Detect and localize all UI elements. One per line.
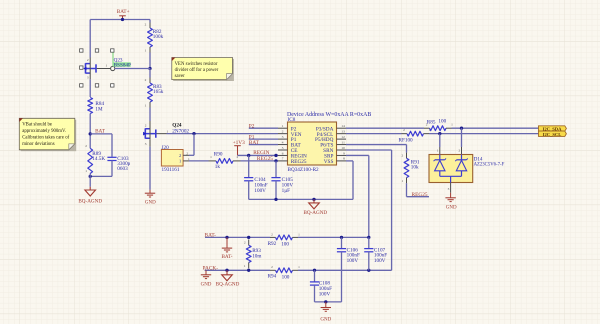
svg-text:2: 2 <box>403 128 405 132</box>
svg-text:2: 2 <box>458 148 460 152</box>
wire SCL to port <box>429 133 539 135</box>
resistor R92 <box>270 236 276 238</box>
wire SCL from IC8 <box>346 133 402 135</box>
svg-text:BQ-AGND: BQ-AGND <box>216 282 240 288</box>
ground GND bottom <box>325 302 327 307</box>
svg-text:BAT-: BAT- <box>221 254 232 260</box>
svg-text:1: 1 <box>437 148 439 152</box>
svg-text:2: 2 <box>145 22 147 26</box>
svg-text:RF100: RF100 <box>399 137 414 143</box>
junction bottom gnd <box>324 300 327 303</box>
junction REGIN C104 <box>247 154 250 157</box>
svg-text:14.5K: 14.5K <box>92 156 105 162</box>
wire left vertical to Q23 drain <box>89 20 91 58</box>
resistor R83 <box>149 69 151 78</box>
wire D14 to GND <box>450 183 452 193</box>
svg-text:2: 2 <box>271 265 273 269</box>
junction SCL to D14 <box>438 132 441 135</box>
wire SCL tap to D14 <box>439 134 441 147</box>
svg-text:0603: 0603 <box>117 166 128 172</box>
wire Q23 gate to junction <box>115 68 150 70</box>
svg-text:100V: 100V <box>319 291 331 297</box>
svg-text:2: 2 <box>186 151 188 155</box>
diode D14 AZ23C5V6-7-F box <box>429 155 473 183</box>
svg-text:GND: GND <box>320 317 331 322</box>
port I2C_SDA <box>539 126 567 131</box>
svg-text:1M: 1M <box>95 106 103 112</box>
port I2C_SCL <box>539 131 567 136</box>
resistor R94 <box>270 269 276 271</box>
junction C106 top <box>340 236 343 239</box>
junction agnd symbol <box>312 198 315 201</box>
junction divider bottom <box>89 175 92 178</box>
svg-text:100V: 100V <box>254 188 266 194</box>
IC U-IC8 BQ34Z100-R2 box <box>288 122 337 165</box>
svg-text:3: 3 <box>145 142 147 146</box>
wire BAT to C103 <box>90 133 112 135</box>
svg-text:R90: R90 <box>214 152 223 158</box>
svg-text:165k: 165k <box>153 89 164 95</box>
junction REGIN C105 column <box>274 154 277 157</box>
wire C106/C108 ground <box>315 301 342 303</box>
svg-text:divider off for a power: divider off for a power <box>175 68 219 73</box>
svg-text:REG25: REG25 <box>291 159 307 165</box>
resistor R89 <box>88 148 93 173</box>
capacitor C103 <box>107 156 116 158</box>
svg-text:1931161: 1931161 <box>162 167 180 173</box>
junction VEN to J20 <box>192 132 195 135</box>
resistor R82 <box>149 20 151 23</box>
svg-text:R85: R85 <box>427 120 436 126</box>
svg-text:2: 2 <box>85 144 87 148</box>
capacitor C107 <box>368 237 370 248</box>
wire VSS to agnd <box>346 160 353 162</box>
svg-text:BAT+: BAT+ <box>117 9 130 15</box>
wire SRP down <box>346 154 369 156</box>
IC8 pins <box>278 127 288 129</box>
svg-text:10m: 10m <box>252 253 261 259</box>
svg-text:2: 2 <box>179 153 181 158</box>
svg-text:1: 1 <box>210 155 212 159</box>
svg-text:BQ-AGND: BQ-AGND <box>78 198 102 204</box>
selection handles around Q23 <box>80 49 83 52</box>
capacitor C106 <box>341 237 343 248</box>
svg-text:6: 6 <box>282 151 284 155</box>
wire TS to R91 <box>346 144 407 146</box>
svg-text:R94: R94 <box>268 274 277 280</box>
wire VEN down to J20 pin2 <box>193 134 195 156</box>
wire SDA from IC8 <box>346 127 424 129</box>
resistor RF100 <box>402 133 408 135</box>
note VBat calibration <box>21 120 76 152</box>
junction C105 agnd <box>274 198 277 201</box>
power port BAT- down <box>226 237 228 248</box>
svg-text:1: 1 <box>451 123 453 127</box>
wire SDA tap to D14 <box>461 128 463 147</box>
ground GND under Q24 <box>145 192 155 194</box>
svg-text:1: 1 <box>85 169 87 173</box>
svg-text:1: 1 <box>298 232 300 236</box>
wire +1V3 to REGIN <box>238 154 279 156</box>
resistor R84 <box>89 79 91 97</box>
svg-text:14: 14 <box>341 124 345 128</box>
svg-text:2: 2 <box>87 58 89 62</box>
svg-text:1: 1 <box>145 49 147 53</box>
wire R94 to SRN corner <box>298 269 392 271</box>
svg-text:Calibration takes care of: Calibration takes care of <box>22 135 69 140</box>
junction C107 top SRP <box>367 236 370 239</box>
wire R90 to IC8 REG25 <box>241 160 279 162</box>
wire Q24 source to GND <box>149 147 151 190</box>
junction R82/R83/Q23 gate <box>148 67 151 70</box>
svg-text:3: 3 <box>87 76 89 80</box>
svg-text:2: 2 <box>401 153 403 157</box>
junction BAT- R93 <box>247 236 250 239</box>
svg-text:BSS84P: BSS84P <box>114 63 131 69</box>
junction REG25 C105 column <box>274 159 277 162</box>
svg-text:2: 2 <box>145 78 147 82</box>
capacitor C104 <box>248 155 250 177</box>
svg-text:2: 2 <box>145 123 147 127</box>
wire R92 to C106/C107 <box>298 236 369 238</box>
svg-text:13: 13 <box>341 129 345 133</box>
Q23 label leader line <box>112 53 114 67</box>
ground BQ-AGND center <box>313 199 315 203</box>
svg-text:BQ34Z100-R2: BQ34Z100-R2 <box>288 167 320 173</box>
resistor R90 <box>209 160 217 162</box>
svg-text:approximately 900mV.: approximately 900mV. <box>22 129 66 134</box>
wire analog ground rail <box>249 198 353 200</box>
svg-text:1µF: 1µF <box>282 188 291 194</box>
svg-text:100k: 100k <box>153 34 164 40</box>
svg-text:2: 2 <box>271 232 273 236</box>
svg-text:1: 1 <box>179 159 181 164</box>
wire P1 to IC8 <box>249 138 278 140</box>
svg-text:1: 1 <box>298 265 300 269</box>
svg-text:GND: GND <box>145 201 156 206</box>
wire SRN down <box>346 149 392 151</box>
svg-text:REG25: REG25 <box>412 192 428 198</box>
svg-text:1: 1 <box>145 103 147 107</box>
svg-text:I2C_SCL: I2C_SCL <box>543 132 562 137</box>
svg-text:BQ-AGND: BQ-AGND <box>303 210 327 216</box>
ground GND at PACK- <box>205 270 207 274</box>
svg-text:9: 9 <box>343 151 345 155</box>
svg-text:Device Address W=0xAA R=0xAB: Device Address W=0xAA R=0xAB <box>287 112 371 118</box>
wire BAT- row <box>205 236 270 238</box>
svg-text:10k: 10k <box>411 165 419 171</box>
ground BQ-AGND left <box>85 190 96 196</box>
resistor R93 <box>248 240 250 246</box>
junction C108 top <box>313 269 316 272</box>
ground BQ-AGND at PACK- <box>226 270 228 274</box>
capacitor C105 <box>275 161 277 178</box>
junction SDA to D14 <box>460 127 463 130</box>
svg-text:1k: 1k <box>215 164 221 170</box>
connector J20 1931161 <box>161 150 183 167</box>
wire to BQ-AGND <box>89 174 91 177</box>
junction BAT- power <box>225 236 228 239</box>
diode D14 dual zener <box>439 155 441 160</box>
wire P2 to IC8 <box>249 127 278 129</box>
wire PACK- row <box>205 269 270 271</box>
svg-text:1: 1 <box>282 124 284 128</box>
junction BAT divider <box>89 132 92 135</box>
svg-text:1: 1 <box>244 264 246 268</box>
wire C103 bottom to divider <box>90 175 112 177</box>
wire VEN Q24 gate to IC8 <box>167 133 279 135</box>
junction at BAT+ tap <box>121 18 124 21</box>
svg-text:10: 10 <box>341 146 345 150</box>
svg-text:R92: R92 <box>268 241 277 247</box>
svg-text:saver: saver <box>175 74 186 79</box>
ground GND under D14 <box>445 197 455 199</box>
svg-text:minor deviations: minor deviations <box>22 142 55 147</box>
svg-text:7: 7 <box>282 157 284 161</box>
svg-text:1: 1 <box>401 179 403 183</box>
svg-text:VEN switches resistor: VEN switches resistor <box>175 62 218 67</box>
junction PACK- agnd <box>225 269 228 272</box>
svg-text:11: 11 <box>342 140 346 144</box>
svg-text:1: 1 <box>105 64 107 68</box>
svg-text:3: 3 <box>282 135 284 139</box>
svg-text:GND: GND <box>446 205 457 210</box>
wire R91 to REG25 <box>406 183 408 197</box>
svg-text:GND: GND <box>201 283 212 288</box>
svg-text:8: 8 <box>343 157 345 161</box>
wire BAT+ horizontal <box>90 19 150 21</box>
svg-text:VSS: VSS <box>324 159 334 165</box>
svg-text:100: 100 <box>282 275 290 281</box>
svg-text:I2C_SDA: I2C_SDA <box>543 126 563 131</box>
transistor Q23 BSS84P <box>85 63 87 73</box>
resistor R91 <box>406 153 408 159</box>
svg-text:REG25: REG25 <box>257 156 273 162</box>
svg-text:2: 2 <box>244 241 246 245</box>
svg-text:100: 100 <box>438 119 446 125</box>
svg-text:AZ23C5V6-7-F: AZ23C5V6-7-F <box>474 162 505 167</box>
capacitor C108 <box>314 270 316 282</box>
svg-text:4: 4 <box>282 140 284 144</box>
svg-text:2: 2 <box>282 129 284 133</box>
junction C107 bottom <box>367 269 370 272</box>
resistor R85 <box>424 127 430 129</box>
svg-text:100V: 100V <box>347 258 359 264</box>
Q23 value BSS84P <box>113 62 131 67</box>
svg-text:12: 12 <box>341 135 345 139</box>
wire J20 pin1 to R90 <box>189 160 209 162</box>
svg-text:VBat should be: VBat should be <box>22 122 52 127</box>
wire R82 to junction <box>149 53 151 69</box>
note VEN power saver <box>173 59 234 81</box>
svg-text:100: 100 <box>281 242 289 248</box>
svg-text:3: 3 <box>448 187 450 191</box>
svg-text:1: 1 <box>429 128 431 132</box>
svg-text:J20: J20 <box>162 145 170 151</box>
junction PACK- R93 <box>247 269 250 272</box>
wire BAT to IC8 <box>249 144 278 146</box>
wire SDA to port <box>452 127 539 129</box>
wire R83 to Q24 drain <box>149 108 151 122</box>
transistor Q24 2N7002 <box>144 128 146 138</box>
svg-text:100V: 100V <box>374 258 386 264</box>
svg-text:5: 5 <box>282 146 284 150</box>
